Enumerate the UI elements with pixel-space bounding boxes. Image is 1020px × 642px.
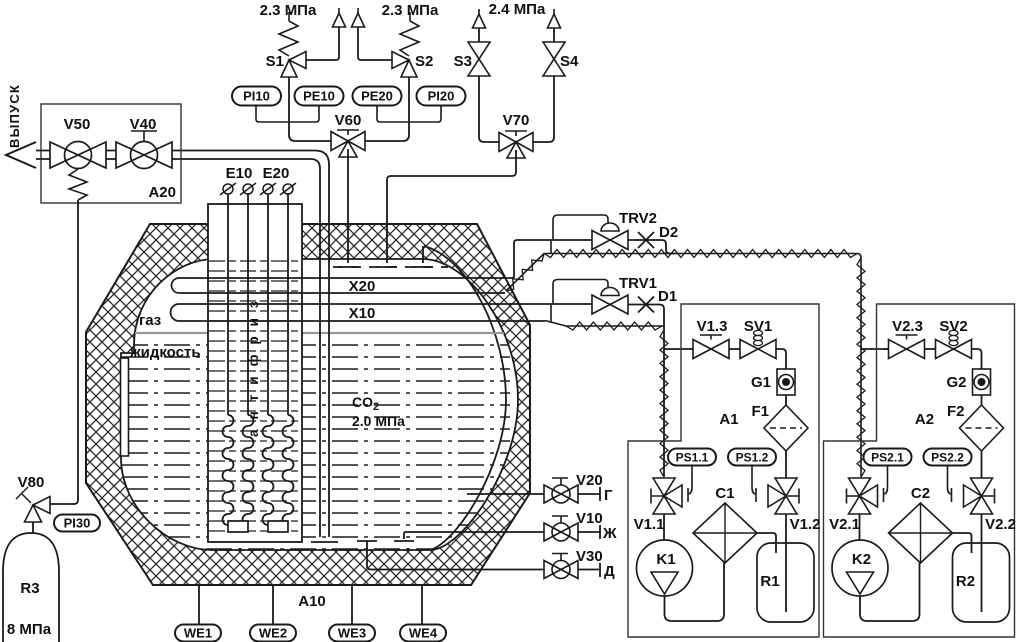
restrictor D2 [628,240,676,254]
valve SV2 [936,340,972,359]
svg-text:S1: S1 [266,53,284,70]
valve V30 [544,554,578,579]
dip tube V1.2 into R1 [785,514,787,612]
svg-text:V70: V70 [503,112,530,129]
svg-text:K1: K1 [656,551,675,568]
svg-text:TRV2: TRV2 [619,210,657,227]
instrument PS2.1 [887,465,889,487]
svg-text:2.4 МПа: 2.4 МПа [489,1,546,18]
S1 vent line and arrow [306,27,339,60]
pipe F2 to V2.2 [981,451,983,478]
svg-text:WE3: WE3 [338,626,366,641]
weight sensor WE2 [250,625,296,642]
pipe V2.3 to SV2 [925,348,936,350]
pipe G2 to F2 [981,395,983,405]
heater coil [283,415,294,525]
svg-text:газ: газ [139,312,161,329]
TRV2 stub [550,240,552,253]
svg-text:E10: E10 [226,165,253,182]
S3 line to V70 [479,76,499,142]
insulated line TRV2 to A2 [506,254,861,478]
svg-text:PI10: PI10 [243,89,270,104]
svg-text:жидкость: жидкость [129,344,201,361]
insulated line tank to A1 [545,321,664,327]
sight glass G1 [777,369,795,395]
V60 gas-phase pipe into tank [347,149,349,263]
svg-text:WE1: WE1 [184,626,212,641]
weight sensor line WE2 [272,585,274,624]
sight glass G2 [973,369,991,395]
weight sensor WE3 [329,625,375,642]
instrument PE20 [353,87,402,106]
svg-text:PS2.2: PS2.2 [931,450,964,464]
safety valve S1 [281,52,306,78]
pipe F1 to V1.2 [785,451,787,478]
svg-text:антифриз: антифриз [246,291,261,437]
TRV2 sensing bypass [553,215,608,240]
svg-text:2.3 МПа: 2.3 МПа [260,2,317,19]
weight sensor WE1 [175,625,221,642]
valve V80 (angle) [25,497,51,523]
level gauge tube [121,358,129,456]
svg-text:WE2: WE2 [259,626,287,641]
pipe V1.1 to K1 [663,514,665,540]
valve TRV2 [592,231,628,250]
dip tube V2.2 into R2 [981,514,983,612]
svg-text:PS1.1: PS1.1 [676,450,709,464]
pipe V1.3 to SV1 [729,348,740,350]
svg-text:A10: A10 [298,593,326,610]
discharge arrow ВЫПУСК [6,142,36,168]
svg-text:D1: D1 [658,288,677,305]
safety valve S3 [468,42,490,76]
valve V60 (3-way) [331,130,365,157]
svg-text:S4: S4 [560,53,579,70]
heater coil [243,415,254,525]
svg-text:R1: R1 [760,573,779,590]
riser X20 to TRV2 [302,240,592,278]
V10 liquid dip pipe [394,532,544,541]
instrument PE10 [295,87,344,106]
heater rod E20 element 2 [287,194,289,415]
tube X20 (U-bend heat exchange channel, gas space) [172,278,209,293]
coil support foot left [228,521,248,532]
svg-text:Ж: Ж [602,525,617,542]
pipe V2.1 to K2 [859,514,861,540]
TRV1 stub [550,305,552,323]
svg-text:V80: V80 [18,474,45,491]
cylinder R3 [32,522,34,533]
svg-text:2.3 МПа: 2.3 МПа [382,2,439,19]
valve V1.2 [768,478,799,514]
svg-text:V40: V40 [130,116,157,133]
filter F2 [960,405,1004,451]
svg-text:V1.2: V1.2 [790,516,821,533]
module A1 boundary [628,304,819,637]
valve V2.3 [889,340,925,359]
module A2 boundary [824,304,1015,637]
valve V20 [544,478,578,503]
valve TRV1 [592,295,628,314]
svg-text:G1: G1 [751,374,771,391]
spring under V50 and line to V80 [69,169,87,200]
tank A10 insulated wall (crosshatched) [86,224,530,585]
cooler C1 [693,503,757,563]
svg-text:S2: S2 [415,53,433,70]
weight sensor WE4 [400,625,446,642]
pipe G1 to F1 [785,395,787,405]
filter F1 [764,405,808,451]
valve V70 (3-way) [499,131,533,158]
pipe C2 to R2 [953,533,972,553]
V70 gas-phase pipe into tank [387,150,516,263]
pipe K1 to C1 [665,563,725,621]
svg-text:V60: V60 [335,112,362,129]
S4 line to V70 [533,76,554,142]
S1 riser to V60 [289,77,331,141]
svg-text:X10: X10 [349,305,376,322]
svg-text:C1: C1 [715,485,734,502]
instrument PI20 [417,87,466,106]
svg-text:SV2: SV2 [939,318,967,335]
svg-text:R2: R2 [956,573,975,590]
safety valve S2 [392,52,417,78]
svg-text:A1: A1 [719,411,738,428]
svg-text:V30: V30 [576,548,603,565]
weight sensor line WE4 [421,585,423,624]
heater coil [263,415,274,525]
svg-text:D2: D2 [659,224,678,241]
valve V40 [116,142,172,169]
pipe to V1.3 [689,348,693,350]
pump K2 [832,540,888,596]
svg-text:V1.1: V1.1 [634,516,665,533]
heater rod E10 element 2 [247,194,249,415]
svg-text:PE10: PE10 [303,89,335,104]
valve V2.1 [847,478,878,514]
svg-text:8 МПа: 8 МПа [7,621,52,638]
pipe to V2.3 [885,348,889,350]
svg-text:R3: R3 [20,580,39,597]
weight sensor line WE3 [351,585,353,624]
TRV1 sensing bypass [553,280,608,305]
valve V10 [544,516,578,541]
tank inner dome (right head, inner shell line) [424,246,506,550]
valve V1.3 [693,340,729,359]
svg-text:A20: A20 [148,184,176,201]
valve V50 [50,142,106,169]
svg-text:PS1.2: PS1.2 [736,450,769,464]
svg-text:WE4: WE4 [409,626,438,641]
pipe arrow to V50 (double line) [36,151,50,160]
antifreeze column (internal heat-exchanger well) [208,204,302,542]
cooler C2 [889,503,953,563]
svg-text:ВЫПУСК: ВЫПУСК [7,84,22,148]
instrument PI30 [54,515,100,532]
weight sensor line WE1 [198,585,200,624]
pipe SV2 to G2 [972,349,982,369]
gas space stub pipe [422,246,424,263]
instrument PS1.1 [691,465,693,487]
svg-text:V2.3: V2.3 [892,318,923,335]
heater rod E10 element 1 [227,194,229,415]
receiver R2 [953,543,1010,622]
pipe C1 to R1 [757,533,776,553]
svg-text:E20: E20 [263,165,290,182]
safety valve S4 [543,42,565,76]
svg-text:K2: K2 [852,551,871,568]
tube X10 (U-bend heat exchange channel) [171,304,209,321]
coil support foot right [268,521,288,532]
svg-text:V2.1: V2.1 [829,516,860,533]
svg-text:V20: V20 [576,472,603,489]
svg-text:V10: V10 [576,510,603,527]
svg-text:Д: Д [604,563,615,580]
svg-text:V50: V50 [64,116,91,133]
restrictor D1 [628,305,664,478]
svg-text:X20: X20 [349,278,376,295]
svg-text:V2.2: V2.2 [985,516,1016,533]
svg-text:TRV1: TRV1 [619,275,657,292]
pipe K2 to C2 [860,563,920,621]
instrument PS2.2 [947,465,949,487]
pipe X10 to TRV1 [302,303,592,305]
CO2 liquid dash-dot lines [122,345,510,549]
pump K1 [637,540,693,596]
svg-text:V1.3: V1.3 [697,318,728,335]
instrument tap line PE20/PI20 [377,105,441,122]
valve V2.2 [964,478,995,514]
instrument tap line PI10/PE10 [256,105,319,122]
svg-text:F1: F1 [751,403,769,420]
S2 vent line and arrow [358,27,392,60]
svg-text:PI30: PI30 [64,516,91,531]
svg-text:S3: S3 [454,53,472,70]
svg-text:SV1: SV1 [744,318,772,335]
discharge dip pipe (double line from A20) [172,151,329,538]
CO2 liquid level line [135,332,506,334]
S2 riser to V60 [365,77,409,141]
svg-text:2.0 МПа: 2.0 МПа [352,413,405,429]
pipe V50-V40 [106,151,116,160]
svg-text:C2: C2 [911,485,930,502]
dashed distributor line [333,266,448,268]
V30 drain pipe [357,541,544,570]
svg-text:F2: F2 [947,403,965,420]
antifreeze liquid dash lines [209,261,301,531]
tap to V2.3 [861,348,887,350]
valve V1.1 [651,478,682,514]
instrument PI10 [232,87,281,106]
svg-text:G2: G2 [946,374,966,391]
instrument PS1.2 [751,465,753,487]
receiver R1 [757,543,814,622]
svg-text:PS2.1: PS2.1 [871,450,904,464]
heater plug symbols E10 E20 [220,183,236,195]
heater rod E20 element 1 [267,194,269,415]
svg-text:PI20: PI20 [428,89,455,104]
block A20 boundary [41,104,181,203]
V20 line from gas space [467,493,544,495]
svg-text:PE20: PE20 [361,89,393,104]
heater coil [223,415,234,525]
pipe SV1 to G1 [776,349,786,369]
valve SV1 [740,340,776,359]
svg-text:A2: A2 [915,411,934,428]
tap to V1.3 [664,348,689,350]
svg-text:Г: Г [604,487,613,504]
